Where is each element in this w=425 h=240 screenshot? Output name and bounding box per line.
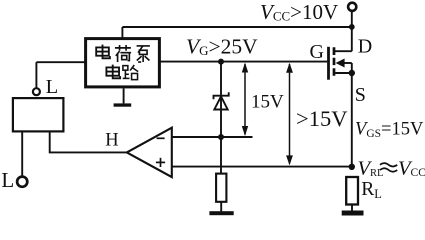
svg-text:15V: 15V — [251, 92, 284, 113]
svg-text:VCC>10V: VCC>10V — [260, 0, 338, 24]
svg-text:D: D — [358, 36, 372, 58]
svg-text:VGS=15V: VGS=15V — [355, 120, 424, 141]
svg-text:>15V: >15V — [296, 106, 347, 131]
svg-text:L: L — [1, 168, 14, 192]
svg-text:RL: RL — [361, 179, 382, 201]
svg-text:S: S — [355, 84, 366, 106]
svg-text:VRL: VRL — [358, 158, 384, 180]
svg-text:VG>25V: VG>25V — [186, 35, 258, 59]
svg-text:L: L — [46, 76, 59, 98]
svg-text:VCC: VCC — [398, 158, 425, 180]
svg-text:H: H — [105, 131, 118, 151]
svg-text:G: G — [310, 41, 324, 63]
